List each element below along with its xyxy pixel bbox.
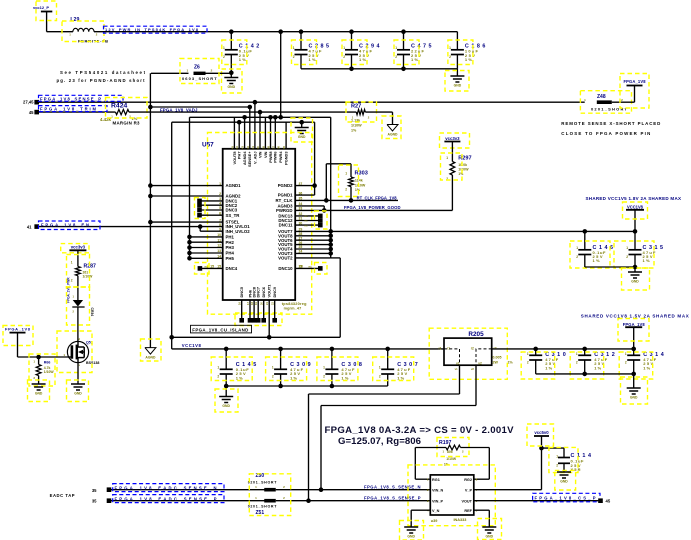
junction C142 bottom node	[229, 71, 234, 76]
svg-text:L29: L29	[70, 17, 79, 23]
svg-text:FPGA_1V8 0A-3.2A => CS = 0V -: FPGA_1V8 0A-3.2A => CS = 0V - 2.001V	[325, 425, 515, 436]
wire INH_UVLO2 riser	[200, 230, 223, 232]
ground under C142	[230, 73, 232, 78]
capacitor C186	[456, 32, 458, 50]
wire RT_CLK riser	[325, 164, 327, 201]
capacitor C114	[563, 448, 565, 457]
yellow box around right DNC squares	[315, 211, 328, 229]
ground under C314	[633, 374, 635, 388]
junction AGND3 to PWRGD	[322, 208, 327, 213]
svg-text:2: 2	[576, 361, 578, 365]
wire STSEL to rail	[150, 221, 222, 223]
yellow box around INA333	[408, 465, 495, 526]
svg-text:VCC1V8: VCC1V8	[182, 343, 202, 348]
junction VOUT bus	[328, 234, 333, 239]
svg-text:V_N: V_N	[432, 509, 440, 513]
wire PH pin	[190, 247, 223, 249]
svg-text:1/10W: 1/10W	[44, 370, 55, 374]
svg-text:1: 1	[556, 454, 558, 458]
svg-text:CR34: CR34	[90, 308, 94, 317]
wire V_N to ground	[411, 509, 430, 511]
svg-text:GND: GND	[630, 396, 638, 400]
junction C309 bottom	[278, 384, 283, 389]
svg-text:0201_SHORT: 0201_SHORT	[248, 504, 277, 508]
ground under C114	[557, 471, 571, 473]
svg-text:FPGA_1V8_CU_ISLAND: FPGA_1V8_CU_ISLAND	[192, 327, 248, 332]
wire R27 to AGND	[365, 111, 392, 113]
capacitor C315	[634, 231, 636, 249]
wire V_P supply	[474, 489, 542, 491]
no-connect DNC1	[200, 200, 223, 202]
yellow box around left DNC squares	[195, 198, 206, 219]
svg-text:1: 1	[345, 172, 347, 176]
svg-text:GND: GND	[454, 84, 462, 88]
junction AGND4 on L_A	[242, 115, 247, 120]
svg-text:Z6: Z6	[194, 64, 200, 70]
capacitor C475	[403, 32, 405, 50]
svg-text:VIN: VIN	[257, 151, 262, 158]
svg-text:PH4: PH4	[226, 251, 235, 256]
wire AGND2 to rail	[150, 195, 222, 197]
wire PH pin	[190, 236, 223, 238]
svg-text:2: 2	[343, 55, 345, 59]
op-amp U39 INA333	[430, 475, 474, 515]
svg-text:FPGA_1V8_POWER_GOOD: FPGA_1V8_POWER_GOOD	[344, 205, 401, 210]
wire R205 v2 sense	[475, 365, 477, 405]
svg-text:FPGA_1V8_VADJ: FPGA_1V8_VADJ	[160, 107, 198, 112]
wire column VIN2 top pin	[264, 117, 266, 149]
junction C312 top	[582, 347, 587, 352]
wire island left vertical	[171, 122, 173, 337]
svg-text:0.005: 0.005	[493, 355, 502, 359]
wire column PWR8 top pin	[270, 117, 272, 149]
svg-text:FPGA_1V8_EADC_SENSE_N: FPGA_1V8_EADC_SENSE_N	[115, 485, 217, 490]
svg-text:GND: GND	[228, 85, 236, 89]
resistor R66	[38, 357, 40, 365]
svg-text:G=125.07, Rg=806: G=125.07, Rg=806	[338, 436, 421, 447]
wire PH pin	[190, 257, 223, 259]
svg-text:1%: 1%	[545, 365, 552, 370]
svg-text:FPGA_1V8_EN: FPGA_1V8_EN	[41, 222, 89, 227]
svg-text:1/10W: 1/10W	[446, 457, 457, 461]
wire PGND bus under caps	[301, 68, 457, 70]
transistor Q51 BSS138	[67, 341, 88, 362]
svg-text:PH2: PH2	[226, 240, 235, 245]
junction VOUT bus	[328, 247, 333, 252]
wire shared caps bottom bus	[536, 373, 634, 375]
capacitor C146	[584, 231, 586, 249]
svg-text:2: 2	[293, 55, 295, 59]
svg-text:1%: 1%	[465, 57, 472, 62]
svg-text:FPGA_1V8_S_SENSE_P: FPGA_1V8_S_SENSE_P	[364, 495, 421, 500]
svg-text:1%: 1%	[593, 258, 600, 263]
ground at Q51	[71, 383, 85, 385]
svg-text:GND: GND	[222, 404, 230, 408]
ground at INA V_N	[404, 526, 418, 528]
svg-text:FPGA_1V8: FPGA_1V8	[624, 79, 647, 84]
svg-text:VOUT1: VOUT1	[267, 284, 272, 298]
svg-text:r2: r2	[471, 347, 474, 351]
resistor R303	[350, 164, 352, 177]
svg-text:1%: 1%	[351, 128, 357, 132]
wire VOUT CS output	[474, 500, 601, 502]
wire AGND3	[295, 205, 324, 207]
wire FPGA_1V8_SENSE_P	[37, 101, 585, 103]
wire PGND loop right vertical	[314, 122, 316, 195]
wire FPGA_1V8_EADC_SENSE_P	[109, 500, 265, 502]
svg-text:1: 1	[379, 366, 381, 370]
svg-text:GND: GND	[35, 392, 43, 396]
wire R137 left to RG1	[415, 447, 446, 449]
capacitor C285	[300, 32, 302, 50]
svg-text:41: 41	[27, 225, 32, 230]
svg-text:PH5: PH5	[226, 256, 235, 261]
junction VOUT bus	[328, 238, 333, 243]
svg-text:1: 1	[293, 46, 295, 50]
svg-text:1: 1	[626, 246, 628, 250]
svg-text:X5R: X5R	[571, 467, 581, 472]
svg-text:4.7k: 4.7k	[44, 366, 51, 370]
svg-text:nc: nc	[205, 264, 209, 268]
svg-text:AGND: AGND	[145, 356, 156, 360]
capacitor C145	[224, 347, 229, 352]
wire VOUT loop corner	[331, 257, 341, 259]
wire VOUT1 bottom pin	[268, 300, 270, 337]
yellow box around bottom DNC squares	[235, 313, 282, 326]
wire R137 right to RG2	[461, 447, 490, 449]
svg-text:45: 45	[29, 110, 34, 115]
svg-text:1/10W: 1/10W	[355, 183, 366, 187]
wire Z48 to FPGA_1V8 flag	[612, 101, 635, 103]
svg-text:1%: 1%	[508, 360, 514, 364]
svg-text:2: 2	[223, 55, 225, 59]
svg-text:DNC9: DNC9	[272, 286, 277, 297]
svg-text:1: 1	[446, 156, 448, 160]
capacitor C312	[584, 349, 586, 355]
svg-text:PWR6: PWR6	[273, 151, 278, 163]
capacitor C307	[385, 347, 390, 352]
svg-text:AGND1: AGND1	[226, 183, 242, 188]
wire column V_ADJ from sense wire	[254, 102, 256, 149]
wire column VIN from trim wire	[259, 112, 261, 149]
svg-text:PH7: PH7	[237, 152, 242, 160]
svg-text:DNC10: DNC10	[278, 266, 293, 271]
svg-text:1: 1	[395, 46, 397, 50]
wire FPGA_1V8_EADC_SENSE_N	[109, 489, 265, 491]
junction C142 top	[229, 29, 234, 34]
svg-text:VCC1V8: VCC1V8	[627, 205, 644, 210]
svg-text:mgrm_47: mgrm_47	[284, 306, 302, 310]
junction C146 top	[583, 229, 588, 234]
svg-text:INH_UVLO2: INH_UVLO2	[226, 229, 251, 234]
svg-text:1/10W: 1/10W	[351, 124, 362, 128]
capacitor C314	[633, 349, 635, 355]
wire Z51 to INA input P	[276, 500, 431, 502]
wire R424 to R27 VADJ	[129, 111, 356, 113]
svg-text:1%: 1%	[411, 57, 418, 62]
svg-text:GND: GND	[631, 280, 639, 284]
svg-text:PH3: PH3	[226, 245, 235, 250]
junction v2 at Z50 wire	[319, 487, 324, 492]
junction rail AGND1	[148, 183, 153, 188]
svg-text:806: 806	[447, 450, 453, 454]
junction C314 bottom	[631, 372, 636, 377]
svg-text:EADC TAP: EADC TAP	[50, 493, 75, 498]
svg-text:v2: v2	[478, 361, 482, 365]
svg-text:45: 45	[606, 499, 611, 504]
svg-text:1%: 1%	[594, 365, 601, 370]
junction C475 bottom	[401, 67, 406, 72]
svg-text:2: 2	[71, 279, 73, 283]
svg-text:35: 35	[92, 488, 97, 493]
junction RT_CLK riser	[324, 198, 329, 203]
junction VCC1V8 flag	[633, 229, 638, 234]
wire VOUT loop right vertical	[339, 258, 341, 337]
wire 12V rail from vcc12 to L29	[47, 31, 73, 33]
svg-text:FPGA_1V8_EADC_SENSE_P: FPGA_1V8_EADC_SENSE_P	[115, 496, 217, 501]
svg-text:REMOTE SENSE X-SHORT PLACED: REMOTE SENSE X-SHORT PLACED	[561, 121, 660, 126]
svg-text:PGND2: PGND2	[278, 183, 293, 188]
yellow box around Z50 Z51	[249, 474, 290, 516]
wire FPGA_1V8 to gate	[18, 356, 68, 358]
junction VADJ at sense rail	[148, 105, 153, 110]
junction C308 bottom	[330, 384, 335, 389]
svg-text:2: 2	[625, 361, 627, 365]
wire R205 v1 sense	[459, 365, 461, 394]
svg-text:GND: GND	[74, 392, 82, 396]
svg-text:nc: nc	[309, 264, 313, 268]
junction PH bus	[187, 235, 192, 240]
junction C475 top	[401, 29, 406, 34]
svg-text:GND: GND	[298, 135, 306, 139]
junction C315 bottom	[633, 265, 638, 270]
svg-text:1/10W: 1/10W	[83, 275, 94, 279]
junction C294 top	[349, 29, 354, 34]
no-connect DNC11	[295, 224, 318, 226]
svg-text:2: 2	[379, 375, 381, 379]
svg-text:PH1: PH1	[226, 235, 235, 240]
wire column PGND3 top pin	[285, 122, 287, 149]
svg-text:vcc3v3: vcc3v3	[445, 136, 460, 141]
junction PGND2	[312, 183, 317, 188]
svg-text:1%: 1%	[309, 57, 316, 62]
svg-text:1: 1	[343, 46, 345, 50]
svg-text:FPGA_1V8: FPGA_1V8	[5, 327, 31, 332]
svg-text:2: 2	[217, 375, 219, 379]
junction C312 bottom	[582, 372, 587, 377]
wire VOUT6	[295, 239, 331, 241]
svg-text:PGND3: PGND3	[284, 151, 289, 165]
label box FPGA_1V8_CU_ISLAND	[191, 325, 252, 333]
junction FPGA_1V8 shared flag	[631, 347, 636, 352]
no-connect DNC6	[263, 300, 265, 319]
svg-text:10.0k: 10.0k	[458, 163, 467, 167]
svg-text:0201_SHORT: 0201_SHORT	[248, 480, 277, 484]
svg-text:INA333: INA333	[454, 518, 467, 522]
svg-text:RG1: RG1	[432, 478, 440, 482]
svg-text:1: 1	[449, 46, 451, 50]
wire PH pin	[190, 252, 223, 254]
wire VOUT5	[295, 244, 331, 246]
wire column VOUT8 top pin	[233, 117, 235, 149]
junction vcc5v0 node	[539, 446, 544, 451]
svg-text:2: 2	[272, 375, 274, 379]
ground under C145	[225, 386, 227, 397]
svg-text:RT_CLK_FPGA_1V8: RT_CLK_FPGA_1V8	[357, 196, 398, 201]
svg-text:Z48: Z48	[597, 94, 606, 100]
svg-text:V_P: V_P	[465, 489, 473, 493]
wire VOUT to VCC1V8 node	[331, 230, 635, 232]
wire PGND1	[295, 194, 314, 196]
svg-text:1: 1	[323, 366, 325, 370]
junction R303 bottom	[349, 198, 354, 203]
junction VOUT1 on loop	[267, 335, 272, 340]
svg-text:tps84320reg: tps84320reg	[282, 302, 307, 306]
no-connect DNC7	[257, 300, 259, 319]
no-connect DNC13	[295, 215, 318, 217]
U57 yellow highlight box	[208, 133, 312, 315]
ground under C315	[628, 271, 642, 273]
wire AGND1 to rail	[150, 185, 222, 187]
junction rail STSEL	[148, 220, 153, 225]
junction C285 top	[299, 29, 304, 34]
wire VCC1V8 bus	[172, 348, 444, 350]
junction PWR6 on L_A	[273, 115, 278, 120]
wire VOUT7	[295, 230, 331, 232]
svg-text:DNC5: DNC5	[239, 286, 244, 297]
svg-text:pg. 23 for PGND-AGND short: pg. 23 for PGND-AGND short	[57, 78, 146, 83]
wire cap bottom bus left group	[226, 385, 388, 387]
svg-text:DNC6: DNC6	[261, 286, 266, 297]
svg-text:GND: GND	[486, 535, 494, 539]
wire PH bus vertical	[189, 117, 191, 258]
svg-text:1%: 1%	[239, 57, 246, 62]
wire left sense rail vertical	[149, 73, 151, 347]
no-connect DNC12	[295, 220, 318, 222]
svg-text:1: 1	[576, 352, 578, 356]
LED CR34	[73, 300, 83, 307]
wire column SENSE+ from VADJ wire	[249, 107, 251, 149]
ground PGND at top of U57	[301, 122, 303, 127]
junction island bottom left	[169, 335, 174, 340]
svg-text:1: 1	[576, 246, 578, 250]
no-connect DNC4	[200, 267, 223, 269]
ground AGND at R27	[387, 125, 398, 132]
wire column 12V feed	[280, 32, 282, 118]
junction 12V at L_A	[278, 115, 283, 120]
wire L_A bus above U57	[190, 116, 331, 118]
svg-text:DNC11: DNC11	[279, 223, 293, 228]
wire L_B PGND loop top	[172, 121, 315, 123]
junction PH bus	[187, 240, 192, 245]
wire 12V rail main horizontal	[94, 31, 457, 33]
svg-text:vcc3v3: vcc3v3	[71, 245, 86, 250]
svg-text:2W: 2W	[493, 360, 499, 364]
junction C294 bottom	[349, 67, 354, 72]
wire column AGND4 top pin	[244, 117, 246, 149]
svg-text:1: 1	[625, 352, 627, 356]
junction INH tie	[198, 224, 203, 229]
wire column PWR6 top pin	[274, 117, 276, 149]
svg-text:1%: 1%	[643, 258, 650, 263]
junction PH bus	[187, 251, 192, 256]
wire PGND2	[295, 185, 314, 187]
svg-text:RG2: RG2	[464, 478, 472, 482]
svg-text:R27: R27	[351, 103, 361, 109]
junction PH bus	[187, 245, 192, 250]
junction PH bus	[187, 256, 192, 261]
svg-text:See TPS54021 datasheet: See TPS54021 datasheet	[60, 70, 146, 75]
junction 12V rail feed	[278, 29, 283, 34]
no-connect DNC8	[253, 300, 255, 319]
svg-text:DNC7: DNC7	[256, 287, 261, 298]
junction C145 bottom	[224, 384, 229, 389]
svg-text:1/10W: 1/10W	[458, 168, 469, 172]
wire INH_UVLO1 enable	[37, 226, 223, 228]
svg-text:GND: GND	[407, 535, 415, 539]
wire C146 bottom to C315	[585, 266, 635, 268]
jumper Z51 0201_SHORT	[264, 499, 276, 503]
junction rail AGND2	[148, 194, 153, 199]
junction PH7 on L_B	[237, 120, 242, 125]
no-connect DNC3	[200, 209, 223, 211]
capacitor C309	[278, 347, 283, 352]
svg-text:1%: 1%	[341, 375, 348, 380]
wire VOUT3	[295, 252, 331, 254]
junction v1 at Z51 wire	[306, 498, 311, 503]
svg-text:1: 1	[223, 46, 225, 50]
svg-text:SS_TR: SS_TR	[226, 213, 241, 218]
svg-text:27,45: 27,45	[23, 100, 34, 105]
ground AGND left rail	[145, 348, 156, 355]
svg-text:R297: R297	[458, 155, 471, 161]
svg-text:2: 2	[395, 55, 397, 59]
wire PWRGD FPGA_1V8_POWER_GOOD	[295, 209, 452, 211]
svg-text:2: 2	[323, 375, 325, 379]
svg-text:MARGIN R3: MARGIN R3	[113, 121, 141, 126]
svg-text:1%: 1%	[359, 57, 366, 62]
svg-text:2: 2	[345, 188, 347, 192]
svg-text:2: 2	[576, 255, 578, 259]
wire PH pin	[190, 241, 223, 243]
svg-text:1%: 1%	[397, 375, 404, 380]
svg-text:1: 1	[272, 366, 274, 370]
svg-text:35: 35	[92, 499, 97, 504]
svg-text:FPGA_1V8: FPGA_1V8	[623, 322, 646, 327]
wire Z50 to INA input N	[276, 489, 431, 491]
svg-text:15: 15	[210, 264, 214, 268]
pin 45 CS_P	[598, 498, 603, 503]
svg-text:1%: 1%	[236, 375, 243, 380]
svg-text:VOUT2: VOUT2	[278, 256, 293, 261]
junction sense wire tap	[253, 100, 258, 105]
wire VOUT2	[295, 257, 331, 259]
svg-text:u39: u39	[431, 519, 438, 523]
svg-text:AGND: AGND	[388, 133, 399, 137]
svg-text:2: 2	[626, 255, 628, 259]
svg-text:1%: 1%	[458, 172, 464, 176]
ground at INA REF	[482, 526, 496, 528]
ground at R66	[32, 383, 46, 385]
svg-text:PWRGD: PWRGD	[276, 208, 292, 213]
svg-text:R303: R303	[355, 171, 368, 177]
svg-text:12V_PWR_IN_TPS54K_FPGA_1V8: 12V_PWR_IN_TPS54K_FPGA_1V8	[105, 27, 199, 32]
svg-text:DNC4: DNC4	[226, 266, 238, 271]
wire FPGA_1V8_TRIM	[37, 111, 116, 113]
svg-text:REF: REF	[464, 509, 472, 513]
wire RT_CLK	[295, 199, 398, 201]
wire VOUT bus vertical right	[330, 117, 332, 258]
